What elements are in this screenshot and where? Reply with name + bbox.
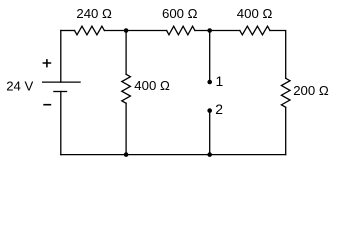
- battery V1 short plate (-): [54, 91, 67, 93]
- svg-text:24 V: 24 V: [6, 79, 33, 94]
- resistor R2 600 ohm: [167, 26, 195, 35]
- wire node-2 stub to bottom wire: [209, 111, 211, 155]
- resistor R4 400 ohm (middle vertical): [122, 74, 131, 103]
- node 2 terminal dot: [207, 108, 212, 113]
- wire bottom: [61, 154, 286, 156]
- svg-text:400 Ω: 400 Ω: [134, 78, 170, 93]
- wire top middle segment 1: [104, 30, 166, 32]
- svg-text:600 Ω: 600 Ω: [162, 6, 198, 21]
- wire middle branch lower (R4 to bottom wire): [125, 103, 127, 154]
- svg-text:400 Ω: 400 Ω: [237, 6, 273, 21]
- svg-text:1: 1: [216, 73, 224, 89]
- battery V1 long plate (+): [43, 81, 80, 83]
- resistor R5 200 ohm (right vertical): [281, 78, 290, 107]
- wire left branch bottom (from battery - plate): [60, 92, 62, 155]
- svg-text:2: 2: [215, 101, 223, 117]
- junction on bottom wire below 400 ohm branch: [124, 152, 129, 157]
- resistor R1 240 ohm: [75, 26, 105, 35]
- battery plus sign: [43, 60, 50, 67]
- svg-text:200 Ω: 200 Ω: [293, 83, 329, 98]
- wire left branch top (to battery + plate): [60, 31, 62, 83]
- wire node-1 stub from top wire: [209, 31, 211, 83]
- junction on bottom wire below node-2 branch: [207, 152, 212, 157]
- junction on top wire at node-1 branch: [207, 28, 212, 33]
- battery minus sign: [44, 104, 50, 106]
- resistor R3 400 ohm (top): [240, 26, 270, 35]
- wire right branch bottom: [285, 107, 287, 154]
- node 1 terminal dot: [207, 80, 212, 85]
- svg-text:240 Ω: 240 Ω: [76, 6, 112, 21]
- wire top-left segment: [61, 30, 75, 32]
- wire middle branch upper (top wire to R4): [125, 31, 127, 75]
- wire top-right segment and right corner down to R5: [270, 31, 286, 79]
- wire top middle segment 2: [195, 30, 240, 32]
- junction on top wire at node of 400 ohm branch: [124, 28, 129, 33]
